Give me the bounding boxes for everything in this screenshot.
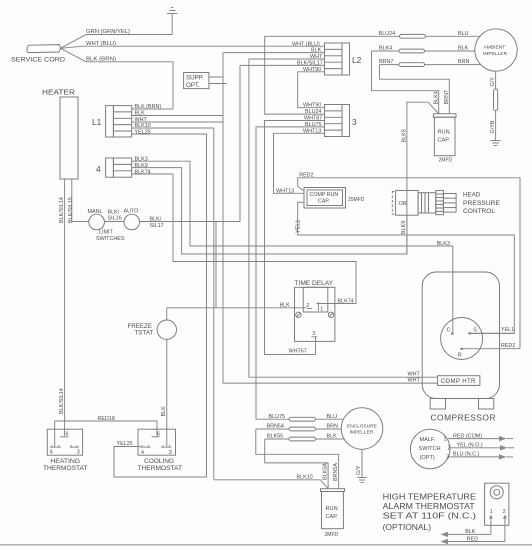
svg-text:4: 4 — [50, 450, 53, 456]
cooling terminal 6 — [152, 431, 161, 437]
svg-text:IMPELLER: IMPELLER — [350, 430, 374, 436]
svg-text:2: 2 — [448, 445, 451, 451]
svg-text:3: 3 — [77, 450, 80, 456]
compressor foot right — [479, 399, 494, 410]
svg-text:THERMOSTAT: THERMOSTAT — [43, 465, 88, 472]
svg-text:BLK3: BLK3 — [135, 156, 148, 162]
terminal block 4 — [96, 158, 132, 177]
wire L1-5 YEL25 down — [132, 130, 207, 477]
time delay terminal 1 — [316, 302, 323, 312]
heater — [60, 97, 78, 179]
svg-text:BLK: BLK — [135, 110, 146, 116]
svg-text:4: 4 — [96, 164, 101, 174]
svg-text:OR: OR — [399, 201, 407, 207]
limit switch MANL — [88, 209, 105, 230]
svg-text:HIGH TEMPERATURE: HIGH TEMPERATURE — [383, 492, 477, 502]
cooling terminal 3 — [161, 445, 172, 456]
svg-text:BRN: BRN — [327, 424, 338, 430]
svg-text:G/Y: G/Y — [490, 77, 496, 87]
svg-text:BLK/SIL15: BLK/SIL15 — [68, 197, 74, 223]
wire 3-2 BLU24 up to ambient impeller — [265, 36, 400, 115]
head pressure control plug — [418, 191, 456, 215]
svg-text:MALF.: MALF. — [420, 437, 436, 443]
wire BLK (BRN) service to L1 — [61, 48, 174, 109]
supp opt box — [184, 73, 209, 90]
svg-text:BLK (BRN): BLK (BRN) — [135, 104, 162, 110]
svg-text:WHT90: WHT90 — [303, 67, 321, 73]
connector BLK4 inline — [399, 49, 425, 53]
svg-text:BRN7: BRN7 — [379, 59, 393, 65]
svg-text:SWITCHES: SWITCHES — [96, 236, 125, 242]
connector G/Y inline — [494, 89, 498, 111]
page bottom border — [0, 544, 532, 546]
connector BLU75 inline — [289, 417, 316, 421]
svg-text:ALARM THERMOSTAT: ALARM THERMOSTAT — [383, 501, 476, 511]
wire GRN (GRN/YEL) — [61, 29, 173, 48]
svg-text:SIL17: SIL17 — [150, 223, 164, 229]
terminal block 3 — [325, 105, 358, 137]
wire supp opt 2 — [209, 83, 227, 85]
wire S to YEL1 — [471, 327, 514, 333]
svg-text:CAP.: CAP. — [326, 514, 339, 520]
run cap 2MFD (bottom) — [321, 489, 345, 538]
label COOLING THERMOSTAT — [138, 458, 183, 472]
terminal 2 arrow — [503, 515, 507, 524]
wire BLU to enclosure impeller — [316, 414, 343, 420]
svg-text:BRN: BRN — [458, 59, 469, 65]
heating terminal 3 — [70, 445, 80, 455]
terminal block L2 — [325, 43, 362, 75]
wire BLK4 tap to run cap — [372, 51, 440, 114]
svg-text:(OPTIONAL): (OPTIONAL) — [383, 522, 432, 532]
svg-text:BLK8: BLK8 — [401, 129, 407, 142]
terminal S — [468, 328, 477, 335]
svg-text:25MFD: 25MFD — [348, 197, 365, 203]
wire 3-3 WHT87 down to time delay — [265, 116, 325, 355]
svg-text:COMP RUN: COMP RUN — [310, 192, 339, 198]
svg-text:3: 3 — [352, 117, 357, 127]
high temp alarm thermostat — [485, 483, 509, 525]
wire BRN7 row — [379, 59, 481, 65]
wire BLK8 run cap to head pressure — [401, 102, 438, 254]
svg-text:BLK: BLK — [327, 434, 338, 440]
svg-text:WHT90: WHT90 — [303, 103, 321, 109]
wire RED18 heating 4 to cooling 6 — [55, 416, 157, 447]
svg-text:BLK5A: BLK5A — [323, 463, 329, 480]
svg-text:BLU (N.C.): BLU (N.C.) — [453, 452, 480, 458]
wire BLK55 tap to run cap — [265, 439, 329, 489]
svg-text:BLU75: BLU75 — [305, 122, 321, 128]
svg-text:RED2: RED2 — [299, 172, 313, 178]
svg-text:WHT13: WHT13 — [303, 128, 321, 134]
service cord — [11, 45, 65, 64]
wire BLK3 to compressor C — [132, 156, 453, 332]
compressor body — [422, 272, 499, 399]
svg-text:BLK74: BLK74 — [338, 298, 354, 304]
svg-text:R: R — [458, 353, 462, 359]
svg-text:WHT: WHT — [135, 117, 148, 123]
svg-text:BLK74: BLK74 — [135, 169, 151, 175]
svg-text:S: S — [473, 328, 477, 334]
svg-text:SIL16: SIL16 — [108, 216, 122, 222]
enclosure impeller — [341, 408, 383, 450]
svg-text:2MFD: 2MFD — [439, 158, 453, 164]
svg-text:CAP.: CAP. — [438, 138, 451, 144]
svg-text:1: 1 — [320, 307, 323, 313]
svg-text:BLU: BLU — [327, 414, 338, 420]
wire BLK to alarm terminal 1 — [441, 524, 491, 538]
svg-text:SUPP.: SUPP. — [186, 75, 204, 82]
svg-text:HEATER: HEATER — [42, 90, 75, 97]
svg-text:CAP.: CAP. — [318, 199, 330, 205]
svg-text:HEAD: HEAD — [463, 192, 481, 199]
svg-text:BRN5A: BRN5A — [333, 463, 339, 481]
wire L1-1 BLK (BRN) — [132, 104, 173, 110]
ground (ambient impeller) — [491, 141, 501, 146]
svg-text:ENCLOSURE: ENCLOSURE — [347, 423, 377, 429]
wire BRN54 tap to run cap — [256, 429, 339, 489]
svg-text:WHT13: WHT13 — [276, 188, 294, 194]
wire BRN7 tap to run cap — [380, 65, 450, 114]
svg-text:BLK: BLK — [280, 303, 291, 309]
wire WHT (BLU) service to L2 — [61, 41, 325, 49]
head pressure control OR box — [392, 191, 418, 216]
svg-text:1: 1 — [490, 509, 493, 515]
svg-text:SET AT 110F (N.C.): SET AT 110F (N.C.) — [383, 511, 477, 521]
wire BLK/SIL17 auto switch up to L2 — [140, 65, 240, 229]
terminal R — [458, 348, 463, 359]
terminal block L1 — [92, 106, 132, 137]
svg-text:BLK4: BLK4 — [433, 91, 439, 104]
wire R to RED2 — [463, 343, 520, 349]
svg-text:RED: RED — [467, 536, 478, 542]
svg-text:BLK (BRN): BLK (BRN) — [86, 56, 116, 62]
cooling thermostat — [138, 429, 176, 455]
svg-text:WHT (BLU): WHT (BLU) — [292, 41, 320, 47]
wire supp opt 1 — [209, 76, 223, 78]
svg-text:YEL1: YEL1 — [296, 220, 302, 233]
wire BLK freeze tstat to time delay — [167, 303, 307, 320]
svg-text:BLK4: BLK4 — [379, 46, 392, 52]
comp run cap 25MFD — [304, 188, 365, 209]
time delay screw left — [296, 312, 301, 317]
label LIMIT SWITCHES — [96, 230, 125, 242]
connector BRN7 inline — [399, 63, 425, 67]
svg-text:2MFD: 2MFD — [325, 532, 339, 538]
svg-text:L2: L2 — [352, 55, 362, 65]
wire BLK10 to bottom run cap — [214, 474, 328, 488]
wire BLK/SIL15 heater to limit switch — [68, 179, 89, 223]
svg-text:BLK/: BLK/ — [150, 217, 162, 223]
wire limit to freeze tstat branch — [215, 222, 217, 308]
wire BRN54 row — [256, 424, 341, 430]
label HIGH TEMPERATURE ALARM THERMOSTAT — [383, 492, 477, 533]
connector BLU24 inline — [400, 34, 426, 38]
svg-text:RED2: RED2 — [501, 343, 515, 349]
svg-text:C: C — [447, 328, 451, 334]
compressor motor circle — [441, 318, 483, 360]
svg-text:L1: L1 — [92, 117, 102, 127]
limit switch AUTO — [124, 209, 140, 230]
wire RED2 comp run cap to compressor R — [298, 172, 520, 348]
svg-text:AMBIENT: AMBIENT — [484, 45, 506, 51]
time delay screw right — [328, 312, 333, 317]
svg-text:WHT (BLU): WHT (BLU) — [86, 41, 116, 47]
svg-text:BRN54: BRN54 — [267, 424, 284, 430]
ground (top, service cord GRN) — [167, 8, 178, 14]
svg-text:YEL1: YEL1 — [501, 327, 514, 333]
svg-text:COOLING: COOLING — [144, 458, 174, 465]
svg-text:(OPT): (OPT) — [420, 455, 435, 461]
svg-text:RED (COM): RED (COM) — [453, 433, 482, 439]
svg-text:BLK: BLK — [458, 46, 469, 52]
terminal 1 arrow — [489, 515, 493, 524]
svg-text:RUN: RUN — [438, 130, 450, 136]
svg-text:BLK3: BLK3 — [437, 241, 450, 247]
wire L1-4 BLK10 down — [132, 123, 214, 480]
svg-text:4: 4 — [141, 450, 144, 456]
svg-text:BLK: BLK — [311, 48, 322, 54]
svg-text:G/YB: G/YB — [490, 120, 496, 133]
svg-text:BLK: BLK — [161, 406, 167, 417]
svg-text:COMPRESSOR: COMPRESSOR — [431, 412, 497, 422]
svg-text:BLK9: BLK9 — [135, 163, 148, 169]
time delay terminal 3 — [311, 331, 317, 355]
wire YEL25 cooling 4 under thermostat — [114, 441, 207, 477]
label HEATING THERMOSTAT — [43, 458, 88, 472]
wire L2-3 WHT to comp htr upper — [249, 54, 438, 377]
svg-text:BLU: BLU — [458, 31, 469, 37]
comp htr box — [438, 376, 480, 386]
svg-text:WHT: WHT — [408, 378, 421, 384]
wire BLK9 to head pressure control — [132, 163, 407, 254]
svg-text:3: 3 — [169, 450, 172, 456]
wire G/YB to ground — [490, 111, 496, 141]
svg-text:LIMIT: LIMIT — [99, 230, 113, 236]
label HEAD PRESSURE CONTROL — [463, 192, 500, 216]
svg-text:BLK9: BLK9 — [401, 221, 407, 234]
run cap 2MFD (top right) — [433, 114, 456, 164]
svg-text:MANL: MANL — [88, 209, 103, 215]
svg-text:BRN7: BRN7 — [444, 90, 450, 104]
svg-text:BLK55: BLK55 — [267, 434, 283, 440]
svg-text:YEL (N.O.): YEL (N.O.) — [457, 443, 483, 449]
wire malf 2 YEL (N.O.) — [451, 443, 515, 451]
svg-text:RUN: RUN — [326, 506, 338, 512]
svg-text:GRN (GRN/YEL): GRN (GRN/YEL) — [86, 29, 130, 35]
svg-text:BLU24: BLU24 — [379, 31, 395, 37]
wire BLK/SIL14 heater to heating thermostat 6 — [59, 179, 65, 436]
wire G/Y ambient impeller ground — [490, 71, 496, 89]
svg-text:YEL25: YEL25 — [117, 441, 133, 447]
malf switch circle — [410, 429, 450, 469]
svg-text:WHT: WHT — [310, 54, 323, 60]
svg-text:OPT.: OPT. — [186, 82, 200, 89]
connector BLK55 inline — [289, 437, 316, 441]
time delay — [295, 280, 335, 341]
wire BLK4 row — [372, 46, 476, 52]
wire malf 3 BLU (N.C.) — [450, 452, 514, 460]
svg-text:SERVICE CORD: SERVICE CORD — [11, 57, 65, 64]
ground (enclosure impeller) — [358, 478, 367, 483]
svg-text:BLU24: BLU24 — [305, 109, 321, 115]
ambient impeller — [475, 29, 517, 71]
wire BLK bus L2 to comp htr lower — [223, 53, 438, 384]
svg-text:BLU75: BLU75 — [269, 414, 285, 420]
cooling terminal 4 — [140, 445, 151, 456]
svg-text:BLK10: BLK10 — [135, 123, 151, 129]
svg-text:PRESSURE: PRESSURE — [463, 200, 500, 207]
svg-text:AUTO: AUTO — [124, 209, 139, 215]
wire 3-4 BLU75 down to enclosure impeller — [256, 122, 325, 419]
svg-text:YEL25: YEL25 — [135, 130, 151, 136]
svg-text:BLK/SIL14: BLK/SIL14 — [59, 388, 65, 414]
wire RED to alarm terminal 2 — [441, 524, 505, 545]
wire YEL1 comp run cap to compressor S — [296, 202, 515, 333]
wire GRN ground drop — [171, 14, 173, 35]
wire BLK74 to time delay — [132, 169, 356, 303]
wire L1-2 BLK to black bus — [132, 110, 223, 116]
wire L2-2 BLK — [223, 48, 325, 54]
svg-text:TSTAT: TSTAT — [135, 330, 154, 337]
svg-text:COMP HTR: COMP HTR — [441, 379, 476, 385]
connector BRN54 inline — [289, 427, 316, 431]
svg-text:BLK/SIL17: BLK/SIL17 — [297, 60, 323, 66]
wire BLK55 row — [265, 434, 344, 440]
svg-text:RED18: RED18 — [98, 416, 115, 422]
svg-text:WHT67: WHT67 — [289, 349, 307, 355]
svg-text:IMPELLER: IMPELLER — [483, 51, 508, 57]
compressor foot left — [430, 399, 445, 410]
wire L2-5 WHT90 down to block 3 — [298, 67, 325, 108]
time delay terminal 2 — [306, 303, 312, 309]
svg-text:SWITCH: SWITCH — [419, 446, 441, 452]
svg-text:TIME DELAY: TIME DELAY — [295, 280, 334, 287]
heating thermostat — [47, 429, 82, 455]
wire BLK freeze tstat to cooling 3 — [161, 339, 167, 446]
svg-text:HEATING: HEATING — [50, 458, 80, 465]
wire malf 1 RED (COM) — [448, 433, 513, 441]
wire G/Y enclosure impeller ground — [356, 449, 362, 477]
svg-text:3: 3 — [446, 454, 449, 460]
svg-text:BLK10: BLK10 — [297, 474, 313, 480]
wire 3-5 WHT13 down to comp run cap — [274, 128, 325, 193]
svg-text:THERMOSTAT: THERMOSTAT — [138, 465, 183, 472]
svg-text:G/Y: G/Y — [356, 465, 362, 475]
svg-text:CONTROL: CONTROL — [463, 208, 496, 215]
wire BLK/SIL16 between limit switches — [104, 210, 124, 222]
svg-text:2: 2 — [503, 509, 506, 515]
svg-text:BLK: BLK — [465, 529, 476, 535]
svg-text:1: 1 — [444, 436, 447, 442]
wire BLU to ambient impeller — [425, 31, 480, 37]
freeze tstat — [128, 320, 177, 339]
heating terminal 6 — [60, 431, 68, 437]
svg-text:3: 3 — [312, 331, 315, 337]
svg-text:BLK/SIL14: BLK/SIL14 — [59, 197, 65, 223]
heating terminal 4 — [50, 445, 61, 455]
wire L1-3 WHT to comp htr — [132, 117, 223, 123]
wire L2-4 BLK/SIL17 — [240, 60, 325, 66]
terminal C — [447, 328, 454, 335]
svg-text:WHT87: WHT87 — [304, 116, 322, 122]
